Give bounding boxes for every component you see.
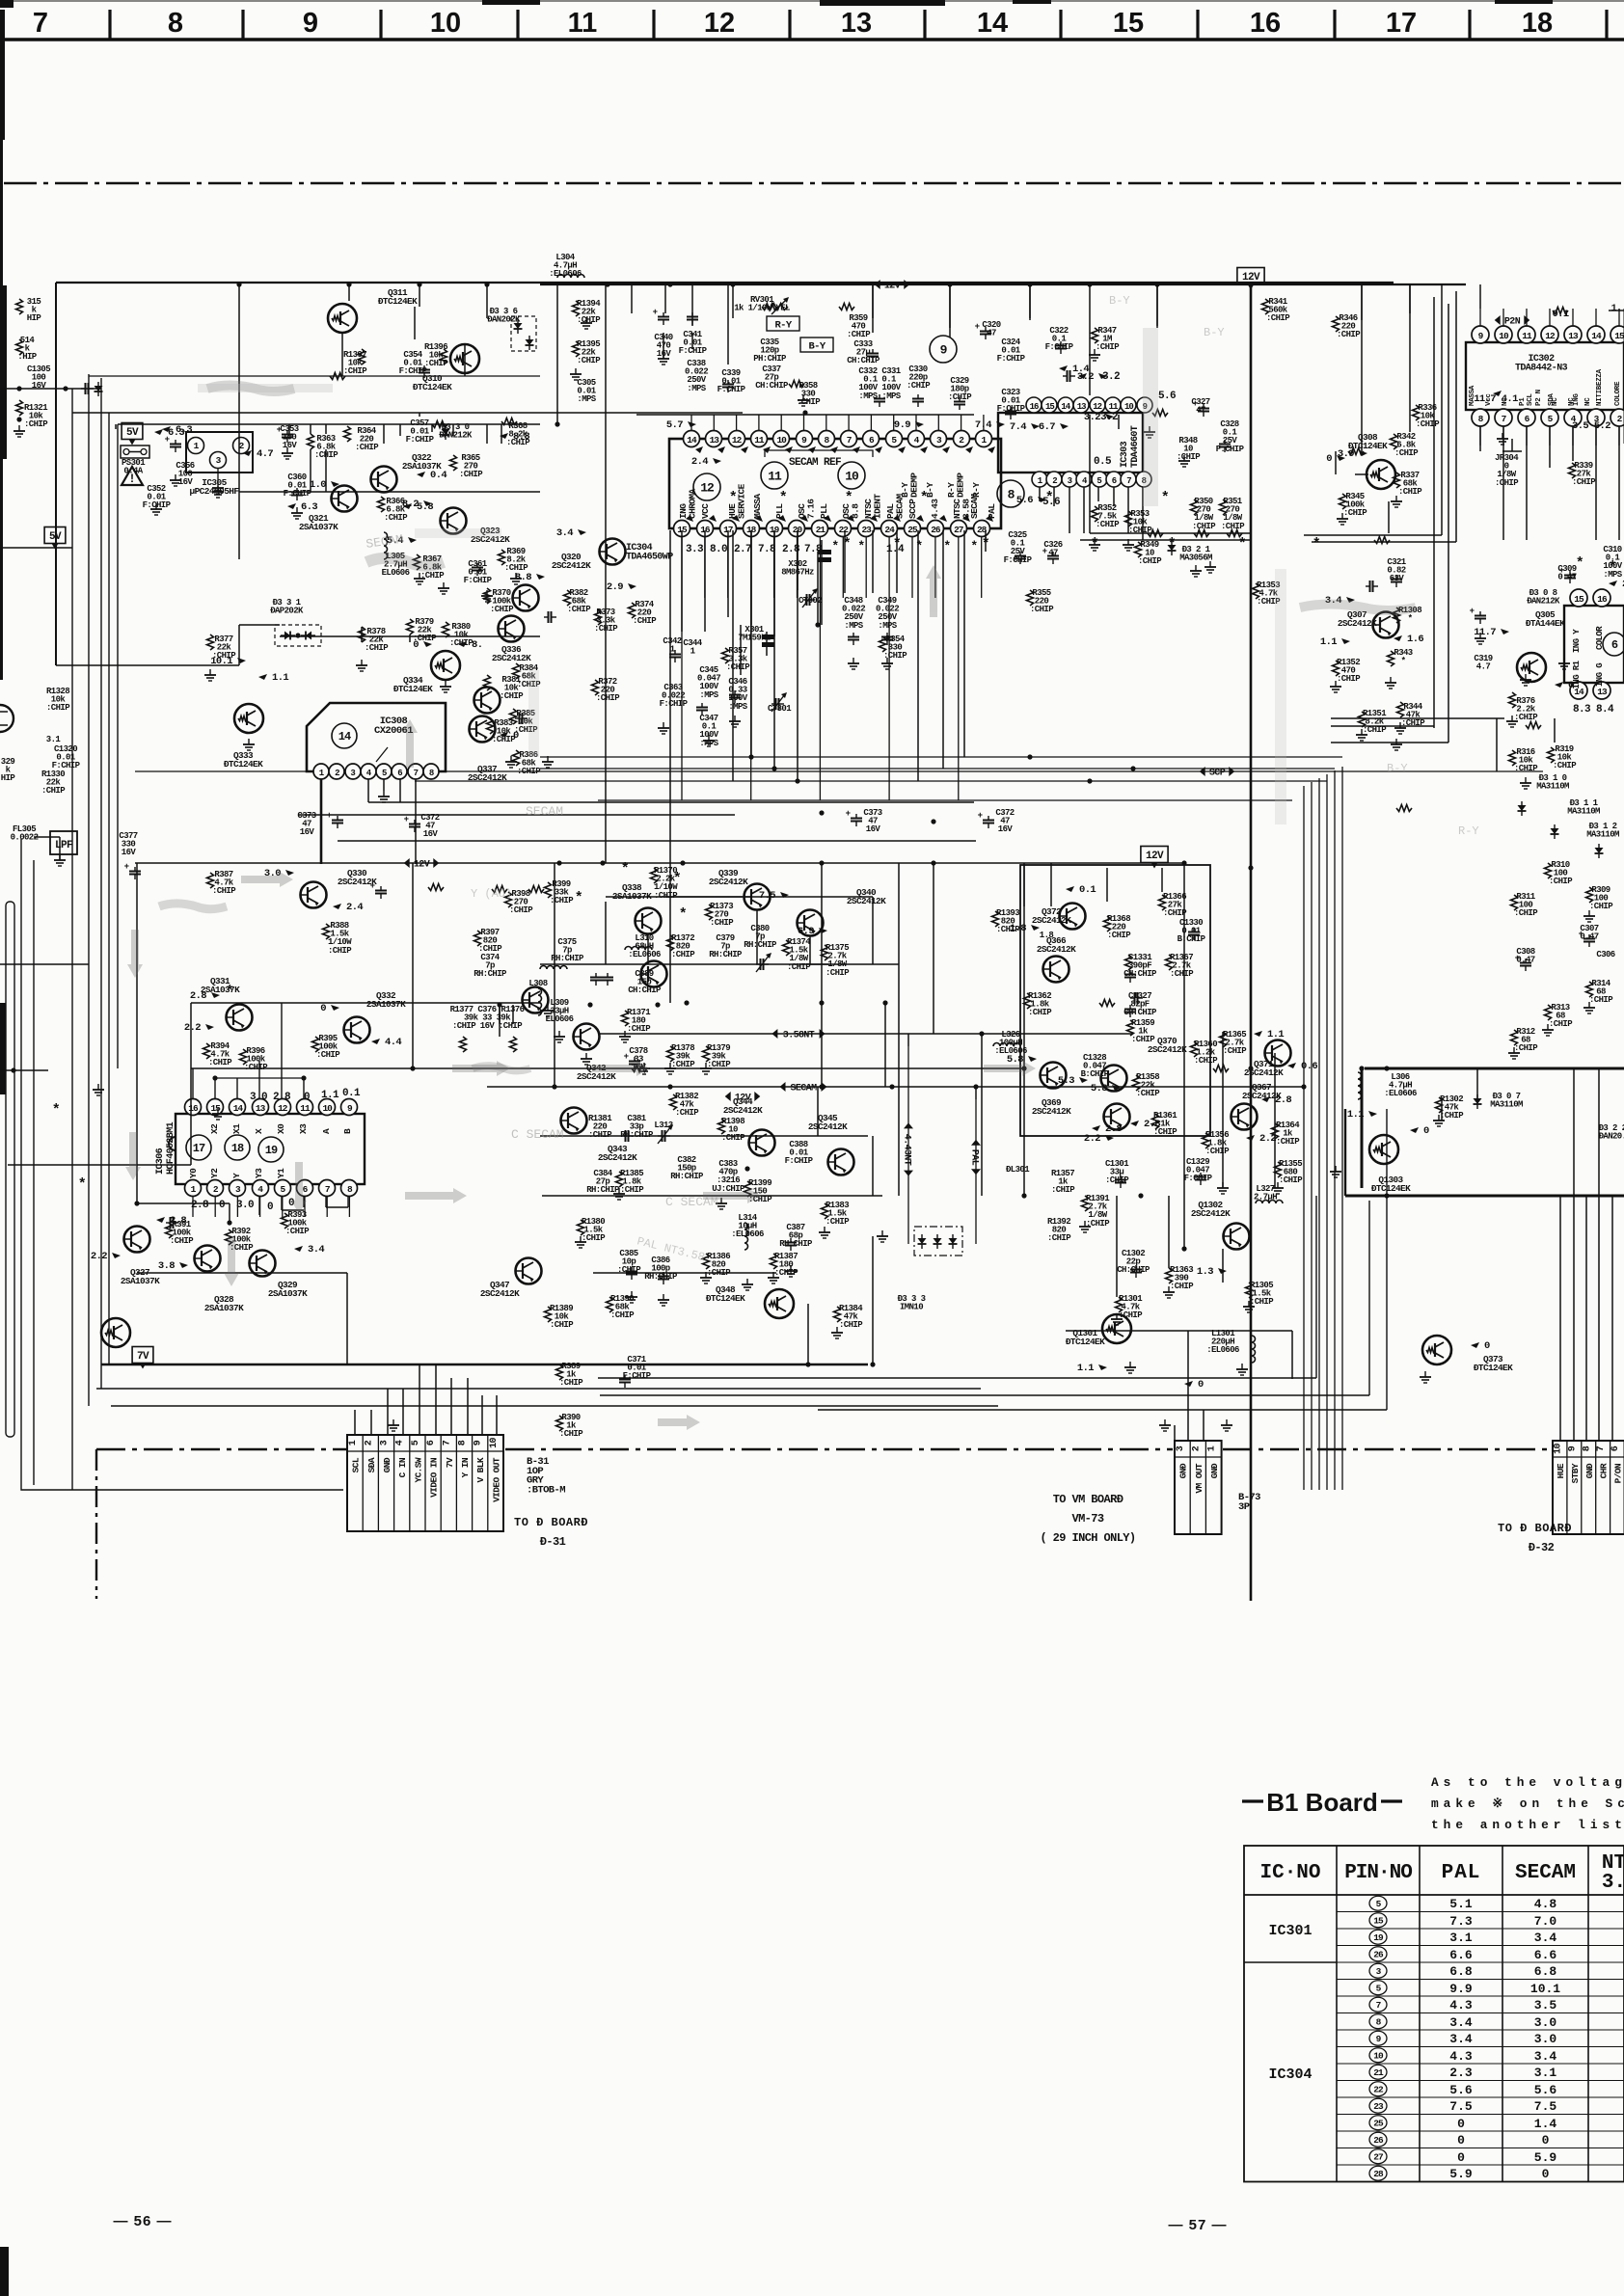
svg-text:27: 27 bbox=[1373, 2151, 1384, 2162]
svg-text:13: 13 bbox=[256, 1103, 266, 1114]
svg-text:10: 10 bbox=[1499, 331, 1509, 341]
ground 55 bbox=[631, 1291, 633, 1297]
voltage measurement 1.0 (4) bbox=[331, 481, 339, 487]
transistor Q332 bbox=[344, 1017, 370, 1043]
svg-text:2.2: 2.2 bbox=[184, 1022, 201, 1034]
svg-text:8: 8 bbox=[458, 1440, 469, 1445]
svg-text:IC·NO: IC·NO bbox=[1259, 1862, 1320, 1884]
voltage measurement 0.1 (48) bbox=[1066, 886, 1074, 892]
resistor symbol v57 bbox=[703, 1254, 710, 1269]
ground 23 bbox=[886, 658, 888, 663]
svg-text:R13518.2k:CHIP: R13518.2k:CHIP bbox=[1363, 709, 1387, 735]
wire 7 bbox=[949, 284, 951, 328]
crystal X301 symbol bbox=[762, 635, 774, 639]
wire net 10 bbox=[501, 424, 502, 444]
svg-text:LPF: LPF bbox=[55, 840, 72, 851]
wire net 42 bbox=[740, 625, 742, 675]
wire net 39 bbox=[797, 530, 798, 781]
resistor symbol v16 bbox=[484, 675, 491, 690]
svg-text:5.9: 5.9 bbox=[1534, 2150, 1557, 2165]
junction 17 bbox=[552, 1084, 556, 1089]
resistor symbol v2 bbox=[16, 339, 23, 355]
voltage measurement 1.1 (14) bbox=[258, 674, 267, 680]
svg-text:5.8: 5.8 bbox=[1091, 1083, 1107, 1094]
junction 45 bbox=[16, 417, 21, 421]
resistor symbol v94 bbox=[1191, 1041, 1198, 1057]
svg-text:B1 Board: B1 Board bbox=[1266, 1788, 1378, 1817]
wire 15 bbox=[1361, 284, 1363, 318]
wire 16 bbox=[1409, 284, 1411, 318]
junction 47 bbox=[748, 754, 753, 759]
wire net 64 bbox=[810, 963, 899, 965]
wire net 70 bbox=[1113, 487, 1115, 506]
svg-text:2.7: 2.7 bbox=[734, 544, 751, 555]
junction 2 bbox=[346, 282, 351, 286]
capacitor symbol v31 bbox=[634, 1057, 636, 1062]
inductor coil h5 bbox=[1256, 1201, 1283, 1204]
ground 50 bbox=[624, 1031, 626, 1037]
junction 36 bbox=[410, 1066, 415, 1070]
transistor Q372 bbox=[1060, 904, 1086, 930]
wire net 76 bbox=[1502, 426, 1504, 540]
wire 92 bbox=[1222, 1249, 1224, 1283]
svg-text:7: 7 bbox=[414, 769, 419, 778]
svg-text:0: 0 bbox=[1542, 2167, 1550, 2181]
wire 12V thick vertical x1297 bbox=[1250, 284, 1253, 1601]
svg-text:C3194.7: C3194.7 bbox=[1474, 654, 1492, 672]
svg-text:6.8: 6.8 bbox=[1534, 1964, 1557, 1979]
svg-text:6.3: 6.3 bbox=[176, 424, 192, 436]
voltage measurement 2.8 (20) bbox=[211, 992, 220, 998]
svg-text:L1301220µH:EL0606: L1301220µH:EL0606 bbox=[1206, 1329, 1239, 1355]
wire net 40 bbox=[817, 552, 819, 625]
connector B-73 (3P, to VM board) bbox=[1175, 1441, 1222, 1534]
ground 60 bbox=[836, 1327, 838, 1333]
wire net 69 bbox=[1097, 487, 1099, 501]
svg-text:SECAM: SECAM bbox=[1515, 1862, 1576, 1884]
junction 35 bbox=[1138, 1193, 1143, 1198]
svg-text:*: * bbox=[831, 539, 838, 554]
svg-text:3.0: 3.0 bbox=[250, 1092, 267, 1103]
svg-text:14: 14 bbox=[338, 730, 351, 743]
svg-text:7.0: 7.0 bbox=[1534, 1914, 1557, 1929]
junction 9 bbox=[556, 860, 561, 865]
svg-text:( 29 INCH ONLY): ( 29 INCH ONLY) bbox=[1040, 1531, 1135, 1545]
svg-text:3.4: 3.4 bbox=[556, 527, 573, 539]
svg-text:3.5 5.2: 3.5 5.2 bbox=[1572, 420, 1610, 432]
net 4.43NT vertical line bbox=[907, 1046, 909, 1244]
capacitor symbol v19 bbox=[414, 820, 416, 824]
capacitor symbol v5 bbox=[663, 312, 664, 317]
resistor symbol h20 bbox=[1213, 1066, 1229, 1072]
svg-text:R13831.5k:CHIP: R13831.5k:CHIP bbox=[826, 1201, 850, 1227]
svg-text:5.6: 5.6 bbox=[1016, 495, 1033, 506]
ground 70 bbox=[1241, 1364, 1243, 1369]
ground 62 bbox=[1084, 1221, 1086, 1227]
ground 72 bbox=[1226, 1419, 1228, 1425]
resistor symbol v90 bbox=[1125, 955, 1132, 970]
svg-text:2.2: 2.2 bbox=[91, 1251, 107, 1262]
svg-text:7V: 7V bbox=[445, 1457, 455, 1468]
junction 54 bbox=[805, 1362, 810, 1366]
resistor symbol v74 bbox=[1388, 651, 1394, 666]
ground 19 bbox=[663, 722, 664, 728]
wire 87 bbox=[807, 1304, 809, 1364]
op-amp IC302 TDA8442-N3 body with pins bbox=[1466, 342, 1624, 410]
junction 41 bbox=[1027, 754, 1032, 759]
ground 79 bbox=[720, 1198, 722, 1203]
svg-text:L308: L308 bbox=[528, 979, 547, 988]
wire 3.58NT rail bbox=[598, 1033, 1133, 1035]
ground 16 bbox=[445, 681, 447, 687]
svg-text:R3762.2k:CHIP: R3762.2k:CHIP bbox=[1514, 696, 1538, 722]
resistor symbol v37 bbox=[595, 609, 602, 625]
voltage measurement 6.9 (29) bbox=[819, 928, 827, 933]
wire vertical bus 5 bbox=[1334, 770, 1336, 1490]
wire net 59 bbox=[137, 1272, 347, 1274]
svg-text:GNĐ: GNĐ bbox=[382, 1457, 392, 1472]
ground 51 bbox=[669, 1063, 671, 1068]
ground 8 bbox=[663, 353, 664, 359]
svg-text:R3944.7k:CHIP: R3944.7k:CHIP bbox=[208, 1041, 232, 1067]
voltage measurement 0 (15) bbox=[423, 641, 432, 647]
capacitor symbol v18 bbox=[337, 816, 338, 821]
svg-text:12V: 12V bbox=[1146, 851, 1164, 862]
node circled 19 (IC306) bbox=[258, 1137, 284, 1162]
svg-text:24: 24 bbox=[884, 525, 895, 535]
resistor symbol v108 bbox=[1191, 500, 1198, 515]
net 12V small arrow bbox=[725, 1092, 731, 1101]
resistor symbol v3 bbox=[16, 400, 23, 416]
ground 33 bbox=[1335, 681, 1337, 687]
capacitor symbol v2 bbox=[175, 440, 176, 445]
wire vertical bus 3 bbox=[1318, 778, 1320, 1490]
IC302 right remnant bbox=[1623, 309, 1624, 444]
wire bold bus y1108 right bbox=[1365, 1067, 1624, 1070]
inductor coil h1 bbox=[557, 275, 584, 278]
svg-text:6: 6 bbox=[426, 1440, 437, 1445]
resistor symbol h11 bbox=[1148, 530, 1163, 537]
wire 18 bbox=[556, 284, 558, 424]
diode symbol 3 bbox=[1521, 801, 1523, 805]
wire 72 bbox=[1441, 284, 1443, 535]
wire net 75 bbox=[1479, 426, 1481, 451]
transistor Q323 bbox=[441, 508, 467, 534]
transistor Q333 bbox=[234, 704, 263, 733]
resistor symbol v78 bbox=[1509, 750, 1516, 766]
svg-text:NC: NC bbox=[1584, 397, 1592, 406]
svg-text:12: 12 bbox=[704, 8, 735, 39]
svg-text:Y2: Y2 bbox=[209, 1168, 220, 1178]
transistor Q bbox=[474, 688, 501, 714]
ground 54 bbox=[618, 1188, 620, 1194]
svg-text:C330220p:CHIP: C330220p:CHIP bbox=[907, 365, 931, 391]
wire vertical bus 6 bbox=[1341, 767, 1343, 1490]
wire 73 bbox=[1455, 291, 1457, 542]
wire left rounded loop bbox=[6, 902, 14, 1437]
ground 74 bbox=[217, 1108, 219, 1114]
ground 39 bbox=[1479, 633, 1481, 638]
capacitor symbol v45 bbox=[1200, 1173, 1202, 1177]
svg-text:3.0: 3.0 bbox=[1534, 2032, 1557, 2046]
svg-text:0: 0 bbox=[267, 1202, 273, 1213]
ground 65 bbox=[1248, 1301, 1250, 1307]
capacitor symbol v42 bbox=[1193, 928, 1195, 932]
wire net 98 bbox=[1023, 865, 1025, 906]
svg-text:5.1: 5.1 bbox=[1449, 1897, 1473, 1911]
wire 27 bbox=[750, 530, 752, 625]
wire net 24 bbox=[631, 284, 633, 313]
wire net 45 bbox=[605, 902, 607, 964]
ground 22 bbox=[853, 658, 854, 663]
svg-text:HUE: HUE bbox=[1556, 1463, 1566, 1478]
svg-text:ING Y: ING Y bbox=[1572, 629, 1582, 653]
trimmer symbol near L312 bbox=[756, 963, 761, 965]
wire nested frame y390 bbox=[89, 375, 540, 377]
wire net 56 bbox=[499, 1005, 501, 1024]
voltage measurement 1.6 (35) bbox=[1394, 635, 1402, 641]
svg-text:1.4: 1.4 bbox=[1072, 364, 1089, 375]
svg-text:ING G: ING G bbox=[1595, 663, 1605, 687]
resistor symbol h7 bbox=[789, 381, 804, 388]
wire net 68 bbox=[1083, 487, 1085, 533]
resistor symbol v101 bbox=[1166, 1268, 1173, 1283]
svg-text:B-Y: B-Y bbox=[808, 341, 826, 353]
svg-text:SDA: SDA bbox=[1548, 393, 1556, 406]
wire net 43 bbox=[665, 896, 743, 898]
capacitor symbol v29 bbox=[134, 867, 136, 872]
junction 5 bbox=[555, 421, 559, 426]
voltage measurement 1.1 (42) bbox=[1254, 1031, 1262, 1037]
svg-text:19: 19 bbox=[1373, 1932, 1384, 1943]
svg-text:6.8: 6.8 bbox=[1449, 1964, 1473, 1979]
junction 30 bbox=[1248, 1066, 1253, 1070]
junction 34 bbox=[1021, 1193, 1026, 1198]
wire 51 bbox=[387, 1389, 389, 1435]
wire 43 bbox=[499, 1005, 501, 1037]
svg-text:16: 16 bbox=[1030, 402, 1039, 412]
wire net 54 bbox=[191, 1002, 540, 1004]
op-amp IC308 CX20061 body with pins bbox=[307, 703, 446, 771]
voltage measurement 2.2 (25) bbox=[112, 1253, 121, 1258]
ground 86 bbox=[1195, 565, 1197, 571]
ground 81 bbox=[824, 1227, 826, 1232]
wire net 91 bbox=[1106, 868, 1108, 902]
svg-text:0: 0 bbox=[1326, 453, 1332, 465]
junction 42 bbox=[1087, 778, 1092, 783]
resistor symbol v33 bbox=[510, 1037, 517, 1052]
svg-text:11.7 4.1: 11.7 4.1 bbox=[1474, 393, 1518, 405]
wire 20 bbox=[821, 540, 823, 625]
resistor symbol v22 bbox=[573, 301, 580, 316]
resistor symbol v62 bbox=[607, 1297, 613, 1312]
node circled 9 (above IC304) bbox=[930, 336, 957, 363]
ground 3 bbox=[286, 447, 288, 453]
heading B1 Board bbox=[1242, 1799, 1263, 1802]
junction 13 bbox=[931, 860, 935, 865]
wire net 84 bbox=[1388, 501, 1390, 533]
resistor symbol v24 bbox=[545, 882, 552, 898]
svg-text:7: 7 bbox=[1126, 476, 1131, 486]
capacitor symbol v33 bbox=[1479, 611, 1481, 616]
wire left horizontal y1208 bbox=[8, 1164, 191, 1166]
svg-text:2.9: 2.9 bbox=[607, 581, 623, 593]
junction 25 bbox=[744, 1166, 749, 1171]
ground 26 bbox=[1094, 349, 1096, 355]
resistor symbol v105 bbox=[1092, 506, 1098, 522]
wire net 7 bbox=[431, 424, 433, 432]
junction 18 bbox=[667, 1084, 672, 1089]
svg-text:R341560k:CHIP: R341560k:CHIP bbox=[1266, 297, 1290, 323]
transistor Q bbox=[1104, 1104, 1130, 1130]
resistor symbol v70 bbox=[1340, 494, 1346, 509]
junction 38 bbox=[587, 1002, 592, 1007]
svg-text:R3573.3k:CHIP: R3573.3k:CHIP bbox=[726, 646, 750, 672]
svg-text:Y (AU): Y (AU) bbox=[471, 887, 512, 901]
wire 39 bbox=[1023, 863, 1025, 1196]
wire 31 bbox=[963, 530, 965, 757]
page split dash-dot border (top) bbox=[4, 182, 1624, 185]
svg-text:+: + bbox=[975, 322, 980, 332]
resistor symbol v25 bbox=[207, 873, 214, 888]
svg-text:6.6: 6.6 bbox=[1534, 1948, 1557, 1962]
wire 12 bbox=[486, 284, 488, 318]
ground 82 bbox=[1222, 1182, 1224, 1188]
wire 54 bbox=[435, 1364, 437, 1435]
resistor symbol v30 bbox=[240, 1049, 247, 1065]
svg-text:2: 2 bbox=[1191, 1445, 1202, 1451]
wire left frame vertical x105 bbox=[100, 378, 102, 1389]
voltage measurement 0.4 (5) bbox=[417, 472, 425, 477]
resistor symbol h13 bbox=[1227, 530, 1242, 537]
ground 76 bbox=[97, 1084, 99, 1090]
svg-text:0: 0 bbox=[1423, 1125, 1429, 1137]
wire 69 bbox=[1585, 1196, 1587, 1379]
wire net 20 bbox=[414, 307, 416, 339]
wire net 14 bbox=[280, 635, 540, 637]
wire 24 bbox=[727, 530, 729, 617]
resistor symbol h8 bbox=[428, 884, 444, 891]
junction 43 bbox=[1130, 766, 1135, 770]
ground 20 bbox=[708, 735, 710, 741]
wire 21 bbox=[872, 530, 874, 593]
svg-text:Đ-32: Đ-32 bbox=[1529, 1541, 1555, 1554]
node circled 6 (IC301) bbox=[1603, 633, 1624, 656]
svg-text:R13851.8k:CHIP: R13851.8k:CHIP bbox=[620, 1169, 644, 1195]
wire 30 bbox=[844, 530, 846, 593]
wire left frame vertical x58 bbox=[55, 283, 57, 665]
resistor symbol v64 bbox=[1262, 299, 1269, 314]
svg-text:R393100k:CHIP: R393100k:CHIP bbox=[285, 1210, 310, 1236]
svg-text:8.8: 8.8 bbox=[513, 431, 529, 443]
power 5V box (lower) bbox=[44, 527, 66, 544]
resistor symbol v8 bbox=[450, 455, 457, 471]
resistor symbol h6 bbox=[839, 304, 854, 311]
svg-text:+: + bbox=[1042, 547, 1047, 556]
svg-text:TO Đ BOARĐ: TO Đ BOARĐ bbox=[514, 1516, 588, 1529]
svg-text:11.7: 11.7 bbox=[1474, 627, 1496, 638]
svg-text:GNĐ: GNĐ bbox=[1178, 1463, 1189, 1478]
ground 28 bbox=[1502, 433, 1503, 439]
svg-text:R345100k:CHIP: R345100k:CHIP bbox=[1343, 492, 1367, 518]
svg-text:VM-73: VM-73 bbox=[1071, 1512, 1103, 1526]
ground 27 bbox=[1149, 426, 1150, 432]
wire net 6 bbox=[419, 413, 420, 417]
svg-text:13: 13 bbox=[1568, 331, 1579, 341]
transistor Q1301 bbox=[1102, 1314, 1131, 1343]
svg-text:P/ON: P/ON bbox=[1613, 1463, 1624, 1483]
capacitor symbol v32 bbox=[1395, 575, 1397, 580]
wire net 5 bbox=[399, 424, 401, 436]
svg-text:6: 6 bbox=[397, 769, 402, 778]
voltage measurement 5.7 (60) bbox=[688, 421, 696, 427]
svg-text:1.1: 1.1 bbox=[1320, 636, 1337, 648]
transistor Q329 bbox=[250, 1251, 276, 1277]
svg-text:1.4: 1.4 bbox=[1534, 2117, 1557, 2131]
wire SCP line bbox=[135, 770, 1543, 772]
wire left frame vertical x122 bbox=[117, 424, 119, 1068]
svg-text:IC301: IC301 bbox=[1268, 1923, 1312, 1939]
svg-text:*: * bbox=[226, 984, 233, 1000]
wire 56 bbox=[467, 1378, 469, 1435]
resistor symbol v91 bbox=[1166, 955, 1173, 970]
wire bottom y1429 bbox=[598, 1377, 1316, 1379]
ground 31 bbox=[1209, 561, 1211, 567]
junction 27 bbox=[882, 1000, 887, 1005]
wire net 85 bbox=[1331, 717, 1504, 719]
resistor symbol v68 bbox=[1391, 434, 1397, 449]
svg-text:Đ3 0 8ĐAN212K: Đ3 0 8ĐAN212K bbox=[1527, 588, 1560, 607]
wire 94 bbox=[34, 836, 60, 838]
wire net 78 bbox=[1549, 426, 1551, 468]
junction 10 bbox=[600, 860, 605, 865]
transistor Q330 bbox=[301, 882, 327, 908]
wire net 15 bbox=[239, 624, 280, 626]
ground 78 bbox=[643, 1063, 645, 1068]
svg-text:the another list.: the another list. bbox=[1431, 1818, 1624, 1832]
svg-text:7: 7 bbox=[1596, 1445, 1607, 1451]
svg-text:11: 11 bbox=[1522, 331, 1532, 341]
inductor coil v4 bbox=[538, 988, 542, 1015]
svg-text:R3527.5k:CHIP: R3527.5k:CHIP bbox=[1096, 503, 1120, 529]
transistor Q348 bbox=[765, 1289, 794, 1318]
ground 37 bbox=[1511, 716, 1513, 721]
capacitor symbol v16 bbox=[855, 814, 857, 819]
svg-text:9: 9 bbox=[1567, 1445, 1578, 1451]
wire 96 bbox=[1609, 310, 1624, 311]
junction 31 bbox=[1359, 1066, 1364, 1070]
resistor symbol v71 bbox=[1253, 583, 1259, 599]
resistor symbol v58 bbox=[771, 1254, 777, 1269]
wire 32 bbox=[942, 530, 944, 769]
voltage measurement 0 (22) bbox=[331, 1005, 339, 1011]
trimmer RV301 symbol bbox=[767, 304, 788, 311]
voltage measurement 3.9 (30) bbox=[1359, 450, 1367, 456]
svg-text:*: * bbox=[673, 871, 681, 887]
wire 68 bbox=[1573, 1068, 1575, 1379]
voltage measurement 8.8 (9) bbox=[500, 433, 508, 439]
voltage measurement 7.5 (28) bbox=[780, 892, 789, 898]
resistor symbol h15 bbox=[1374, 537, 1390, 544]
svg-text:+: + bbox=[124, 862, 129, 872]
wire 6 bbox=[872, 284, 874, 318]
svg-text:10: 10 bbox=[430, 8, 461, 39]
svg-text:*: * bbox=[845, 490, 853, 506]
svg-text:5: 5 bbox=[1096, 476, 1101, 486]
wire 45 bbox=[136, 863, 138, 1203]
svg-text:2.8: 2.8 bbox=[190, 990, 206, 1002]
transistor Q340 bbox=[798, 910, 824, 936]
